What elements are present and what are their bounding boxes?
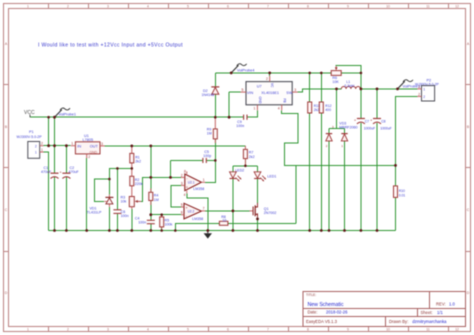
svg-text:5: 5 xyxy=(187,5,189,9)
svg-text:WJ300V-5.0-2P: WJ300V-5.0-2P xyxy=(17,135,43,139)
wire R12 column xyxy=(320,73,322,231)
wire VD1 cathode xyxy=(108,179,110,195)
junction dots P1 pin2 net xyxy=(47,144,50,147)
wire LED rail xyxy=(233,165,258,167)
svg-text:100n: 100n xyxy=(236,124,244,128)
svg-text:Sheet:: Sheet: xyxy=(421,310,433,315)
svg-text:VIN: VIN xyxy=(247,91,254,95)
dual diode VD3 MBRF2060 xyxy=(326,121,358,148)
junction dots 12V right rail xyxy=(230,72,233,75)
svg-text:A: A xyxy=(5,42,8,46)
wire VD1 ref loop xyxy=(95,179,110,201)
connector P1 xyxy=(17,130,44,158)
VD3 diode A xyxy=(326,133,332,135)
wire C9 right to U7 GND pin corner xyxy=(247,110,257,117)
wire VD3 top bracket xyxy=(329,127,345,129)
diode D2 1N4148 xyxy=(202,87,220,97)
svg-text:1: 1 xyxy=(27,5,29,9)
svg-text:3: 3 xyxy=(107,5,109,9)
svg-text:9: 9 xyxy=(347,5,349,9)
wire VD1 anode to bus xyxy=(108,207,110,231)
resistor R11 xyxy=(308,102,320,113)
U1 pin 3 xyxy=(100,145,105,147)
wire R10 bottom to bus xyxy=(395,197,397,230)
svg-text:dzmitrymarchanka: dzmitrymarchanka xyxy=(412,319,447,324)
svg-text:10: 10 xyxy=(386,5,390,9)
svg-text:12: 12 xyxy=(455,5,459,9)
svg-text:1: 1 xyxy=(41,148,43,152)
svg-text:12: 12 xyxy=(455,328,459,332)
wire R9 column to U2.1 output xyxy=(205,160,215,182)
svg-text:2: 2 xyxy=(266,77,268,81)
svg-text:TITLE:: TITLE: xyxy=(306,293,316,297)
svg-text:2: 2 xyxy=(41,142,43,146)
svg-text:1: 1 xyxy=(203,178,205,182)
svg-text:7: 7 xyxy=(267,5,269,9)
junction dots output rail xyxy=(335,88,338,91)
svg-text:1: 1 xyxy=(423,88,425,92)
VCC net flag xyxy=(24,110,35,117)
U7 pin 3 SW xyxy=(292,91,298,93)
svg-text:2: 2 xyxy=(67,5,69,9)
wire R6 right to output node xyxy=(341,72,361,74)
svg-text:FB: FB xyxy=(282,99,286,103)
wire 12V top rail right module xyxy=(215,72,331,74)
resistor R12 xyxy=(319,102,331,113)
wire P2 pin2 down to R10 xyxy=(396,96,418,185)
wire R11 column xyxy=(309,73,311,231)
svg-text:LM358: LM358 xyxy=(192,217,203,221)
frame row ticks right xyxy=(466,85,471,252)
wire C6 column xyxy=(116,168,118,230)
svg-text:0.01: 0.01 xyxy=(399,193,406,197)
svg-text:2: 2 xyxy=(67,328,69,332)
wire pin6 net horizontal xyxy=(151,214,181,216)
wire U7 VIN to VCC node xyxy=(229,92,240,117)
svg-text:2: 2 xyxy=(35,144,37,148)
svg-text:10: 10 xyxy=(386,328,390,332)
svg-text:P1: P1 xyxy=(29,130,34,134)
wire U7 FB zigzag to sense line xyxy=(282,110,298,165)
junction dot C5 right xyxy=(214,159,217,162)
svg-text:1: 1 xyxy=(418,85,420,89)
frame column ticks bottom xyxy=(49,327,449,332)
svg-text:U2.2: U2.2 xyxy=(188,209,195,213)
junction dot Q1 source xyxy=(256,218,259,221)
svg-text:7: 7 xyxy=(267,328,269,332)
P1 pin 1 xyxy=(40,151,44,153)
wire U7 top pin to rail xyxy=(269,73,271,76)
junction dots +5V rail xyxy=(130,145,133,148)
connector P2 xyxy=(415,78,439,101)
svg-text:1000uF: 1000uF xyxy=(364,127,376,131)
probe VolProbe1 xyxy=(55,108,77,117)
resistor R9 xyxy=(207,117,218,143)
svg-text:VolProbe4: VolProbe4 xyxy=(237,68,255,72)
resistor R4 xyxy=(149,189,159,206)
junction dots pin6 net xyxy=(149,213,152,216)
svg-text:2k2: 2k2 xyxy=(249,155,255,159)
svg-text:Drawn By:: Drawn By: xyxy=(389,319,408,324)
svg-text:SW: SW xyxy=(286,91,293,95)
resistor R5 xyxy=(160,215,173,229)
wire P1 pin2 to U1 IN xyxy=(44,145,71,147)
frame row ticks left xyxy=(4,85,9,252)
svg-text:OUT: OUT xyxy=(90,144,99,148)
wire U7 SW to L1 xyxy=(298,89,337,92)
capacitor C1 xyxy=(41,166,59,178)
resistor R1 xyxy=(130,146,141,169)
svg-text:VolProbe1: VolProbe1 xyxy=(59,112,77,116)
svg-text:5: 5 xyxy=(181,203,183,207)
svg-text:1: 1 xyxy=(27,328,29,332)
svg-text:2k2: 2k2 xyxy=(135,160,141,164)
svg-text:7: 7 xyxy=(203,207,205,211)
wire sense line horizontal xyxy=(296,164,396,166)
svg-text:2N7002: 2N7002 xyxy=(264,211,277,215)
svg-text:2018-02-26: 2018-02-26 xyxy=(326,310,348,315)
probe VolProbe4 xyxy=(231,64,254,73)
wire L1 right to P2 pin1 xyxy=(361,88,418,90)
svg-text:4: 4 xyxy=(147,5,149,9)
svg-text:100n: 100n xyxy=(138,220,146,224)
svg-text:470uF: 470uF xyxy=(41,170,52,174)
wire VD3 tap xyxy=(336,89,338,128)
svg-text:1M: 1M xyxy=(154,198,159,202)
svg-text:1.0: 1.0 xyxy=(449,301,455,306)
svg-text:I Would like to test with +12V: I Would like to test with +12Vcc Input a… xyxy=(38,42,183,48)
svg-text:3: 3 xyxy=(101,142,103,146)
P1 pin 2 xyxy=(40,145,44,147)
wire U2.1 pin3 to U2.2 pin5 xyxy=(171,185,181,207)
svg-text:C: C xyxy=(467,208,470,212)
svg-text:VCC: VCC xyxy=(24,110,35,116)
P2 pin 1 xyxy=(417,88,421,90)
svg-text:VC: VC xyxy=(270,83,274,88)
capacitor C5 xyxy=(203,150,211,163)
svg-text:IN: IN xyxy=(77,144,81,148)
svg-text:1000uF: 1000uF xyxy=(380,127,392,131)
svg-text:3: 3 xyxy=(181,181,183,185)
potentiometer R3 xyxy=(121,195,141,209)
svg-text:R10: R10 xyxy=(399,189,405,193)
op-amp U2.2 LM358 xyxy=(181,203,205,221)
svg-text:6: 6 xyxy=(181,211,183,215)
U2.1 pin 4 stub xyxy=(186,191,188,194)
LED1 xyxy=(254,172,276,181)
capacitor C4 xyxy=(135,216,155,224)
wire R4 bottom to C4 node xyxy=(150,201,152,221)
svg-text:2: 2 xyxy=(88,155,90,159)
wire C5 horizontal left segment xyxy=(171,159,203,161)
trimmer R6 xyxy=(331,66,341,84)
U2.1 pin 8 stub xyxy=(186,171,188,174)
wire C1 column xyxy=(54,117,56,230)
svg-text:1M: 1M xyxy=(207,132,212,136)
inductor L1 xyxy=(341,80,360,89)
U2.2 pin 5 xyxy=(181,206,184,208)
junction dot VD1 loop xyxy=(108,178,111,181)
wire LED1 bottom to Q1 drain xyxy=(257,179,259,203)
capacitor C2 xyxy=(59,166,79,178)
svg-text:100n: 100n xyxy=(121,214,129,218)
svg-text:220k: 220k xyxy=(135,182,143,186)
capacitor C7 xyxy=(354,118,375,131)
wire R3 wiper to U2.1 pin2 xyxy=(141,177,181,201)
P2 pin 2 xyxy=(417,95,421,97)
svg-text:8: 8 xyxy=(307,328,309,332)
U2.1 pin 2 xyxy=(181,176,185,178)
svg-text:D: D xyxy=(5,291,8,295)
svg-text:C7: C7 xyxy=(365,120,369,124)
svg-text:2: 2 xyxy=(181,173,183,177)
svg-text:0.3mH: 0.3mH xyxy=(344,84,355,88)
svg-text:D: D xyxy=(467,291,470,295)
junction dots ground bus xyxy=(53,229,56,232)
wire R7 bottom to LED rail xyxy=(244,159,246,166)
wire R8 line right segment xyxy=(228,222,296,224)
capacitor C8 xyxy=(370,118,392,131)
wire ground bus xyxy=(49,230,396,232)
wire U1 GND to bus xyxy=(86,158,88,230)
svg-text:8: 8 xyxy=(184,170,186,174)
transistor Q1 2N7002 xyxy=(250,203,277,218)
shunt reference VD1 TL431LP xyxy=(87,195,114,215)
wire LED2 top xyxy=(232,166,234,172)
wire L1 left xyxy=(337,88,342,90)
svg-text:B: B xyxy=(467,125,470,129)
svg-text:400: 400 xyxy=(325,108,331,112)
wire U7 GND pin down xyxy=(256,110,258,117)
svg-text:100p: 100p xyxy=(203,154,211,158)
probe VolProbe3 xyxy=(398,80,421,89)
U2.1 pin 1 output xyxy=(201,181,205,183)
svg-text:U7: U7 xyxy=(257,85,262,89)
svg-text:EasyEDA V5.1.3: EasyEDA V5.1.3 xyxy=(306,319,338,324)
svg-text:U2.1: U2.1 xyxy=(188,180,195,184)
svg-text:10: 10 xyxy=(222,218,226,222)
svg-text:10K: 10K xyxy=(332,80,339,84)
frame column ticks top xyxy=(49,4,449,9)
wire sense drop to R8 line xyxy=(295,165,297,223)
svg-text:4: 4 xyxy=(147,328,149,332)
capacitor C6 xyxy=(113,210,128,218)
wire Q1 source to bus xyxy=(257,217,259,230)
svg-text:6: 6 xyxy=(227,328,229,332)
wire VD3 left diode leads xyxy=(328,128,330,230)
resistor R7 xyxy=(243,146,254,166)
regulator U7 XL4016E1 xyxy=(241,76,298,111)
wire C7 column xyxy=(360,89,362,231)
resistor R8 xyxy=(219,215,228,225)
wire U2.2 out to Q1 gate xyxy=(205,210,249,212)
wire R6 wiper loop xyxy=(336,65,361,89)
wire R9 bottom through rail to C5 node xyxy=(214,139,216,160)
svg-text:A: A xyxy=(467,42,470,46)
U1 pin 1 xyxy=(71,145,76,147)
svg-text:5: 5 xyxy=(242,88,244,92)
svg-text:Date:: Date: xyxy=(308,310,318,315)
svg-text:1/1: 1/1 xyxy=(437,310,443,315)
junction dots pin2 net xyxy=(149,176,152,179)
wire U2.1 pin4 to ground symbol xyxy=(187,193,208,230)
wire P1 pin1 to ground bus xyxy=(44,152,49,231)
wire pin2 node down to R4 xyxy=(150,177,152,192)
wire C8 column xyxy=(376,89,378,231)
svg-text:9: 9 xyxy=(347,328,349,332)
svg-text:11: 11 xyxy=(426,5,430,9)
regulator U1 L7805 xyxy=(71,134,105,159)
U7 pin 4 FB bottom xyxy=(281,105,283,111)
junction dots R1/R2 node xyxy=(131,167,134,170)
U7 pin 5 VIN xyxy=(241,91,247,93)
junction dot LED rail xyxy=(244,165,247,168)
svg-text:GND: GND xyxy=(258,97,262,105)
U2.1 pin 3 xyxy=(181,184,185,186)
wire R8 line left segment with drop xyxy=(175,223,219,230)
svg-text:REV:: REV: xyxy=(436,301,446,306)
junction dots on 12V top wire xyxy=(47,116,50,119)
resistor R2 xyxy=(130,168,143,196)
LED2 xyxy=(230,168,245,181)
wire C5 right segment to R9 column xyxy=(207,159,216,161)
wire C5 left vertical to pin2 net xyxy=(170,160,172,177)
svg-text:4: 4 xyxy=(278,107,280,111)
op-amp U2.1 LM358 xyxy=(181,170,205,197)
svg-text:5: 5 xyxy=(187,328,189,332)
wire D2 anode to VCC node xyxy=(214,94,216,117)
svg-text:1: 1 xyxy=(254,107,256,111)
wire LED1 top xyxy=(257,166,259,172)
wire R5 bottom to bus xyxy=(161,227,163,230)
svg-text:8: 8 xyxy=(307,5,309,9)
U2.2 pin 7 output xyxy=(201,210,205,212)
svg-text:2: 2 xyxy=(418,92,420,96)
svg-text:6: 6 xyxy=(227,5,229,9)
svg-text:New Schematic: New Schematic xyxy=(308,302,344,308)
junction dot gate net xyxy=(232,210,235,213)
svg-text:1: 1 xyxy=(71,142,73,146)
svg-text:LM358: LM358 xyxy=(193,187,204,191)
junction dot sense line xyxy=(394,164,397,167)
svg-text:C8: C8 xyxy=(381,120,385,124)
svg-text:B: B xyxy=(5,125,8,129)
wire VCC 12V horizontal top xyxy=(30,116,243,118)
svg-text:1: 1 xyxy=(35,151,37,155)
ground symbol xyxy=(204,231,212,239)
svg-text:100k: 100k xyxy=(165,223,173,227)
U1 pin 2 xyxy=(86,154,88,158)
svg-text:3: 3 xyxy=(294,88,296,92)
capacitor C9 xyxy=(236,115,247,128)
U7 pin 2 top (VC) xyxy=(269,76,271,82)
wire VCC drop to P1 pin2 net xyxy=(48,117,50,146)
wire R3 bottom to bus xyxy=(131,209,133,231)
wire VD3 right diode leads xyxy=(344,128,346,230)
resistor R10 xyxy=(394,186,406,198)
svg-text:LED1: LED1 xyxy=(267,175,276,179)
svg-text:2: 2 xyxy=(423,95,425,99)
wire rail drop x=150.8 to pin2 net xyxy=(150,146,152,178)
svg-text:XL4016E1: XL4016E1 xyxy=(261,91,279,95)
svg-text:TL431LP: TL431LP xyxy=(87,211,102,215)
wire D2 top corner from 12V rail xyxy=(214,73,216,87)
svg-text:10k: 10k xyxy=(121,200,127,204)
wire R1/R2 node left to VD1 xyxy=(109,168,131,179)
VD3 diode B xyxy=(341,133,347,135)
U7 pin 1 GND bottom xyxy=(256,105,258,111)
svg-text:2k2: 2k2 xyxy=(314,108,320,112)
wire +5V rail U1 OUT to R7 xyxy=(105,145,246,147)
wire LED2 bottom to bus xyxy=(232,179,234,231)
svg-text:1N4148: 1N4148 xyxy=(202,93,215,97)
svg-text:GND: GND xyxy=(90,150,98,154)
frame row letters xyxy=(5,42,470,295)
svg-text:4: 4 xyxy=(184,193,186,197)
U2.2 pin 6 xyxy=(181,214,184,216)
title block xyxy=(303,292,466,327)
svg-text:MBRF2060: MBRF2060 xyxy=(339,125,357,129)
wire C2 column xyxy=(65,146,67,231)
wire C4 bottom to bus xyxy=(150,224,152,231)
svg-text:11: 11 xyxy=(426,328,430,332)
svg-text:C: C xyxy=(5,208,8,212)
svg-text:3: 3 xyxy=(107,328,109,332)
